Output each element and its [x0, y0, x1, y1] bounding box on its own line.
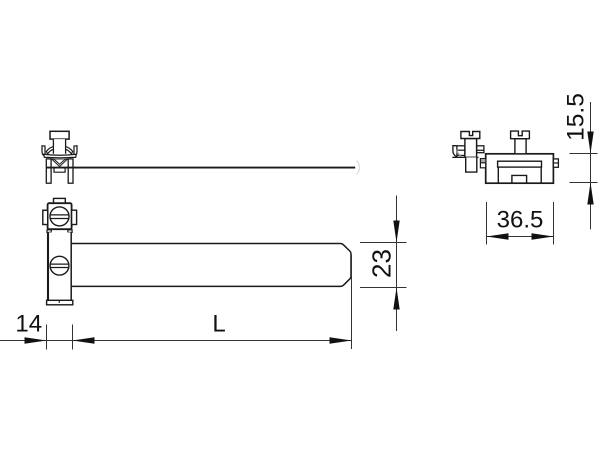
svg-text:14: 14 [15, 311, 42, 338]
svg-text:L: L [212, 311, 225, 338]
svg-text:15.5: 15.5 [563, 93, 590, 141]
svg-text:23: 23 [367, 249, 397, 278]
svg-text:36.5: 36.5 [497, 207, 544, 234]
